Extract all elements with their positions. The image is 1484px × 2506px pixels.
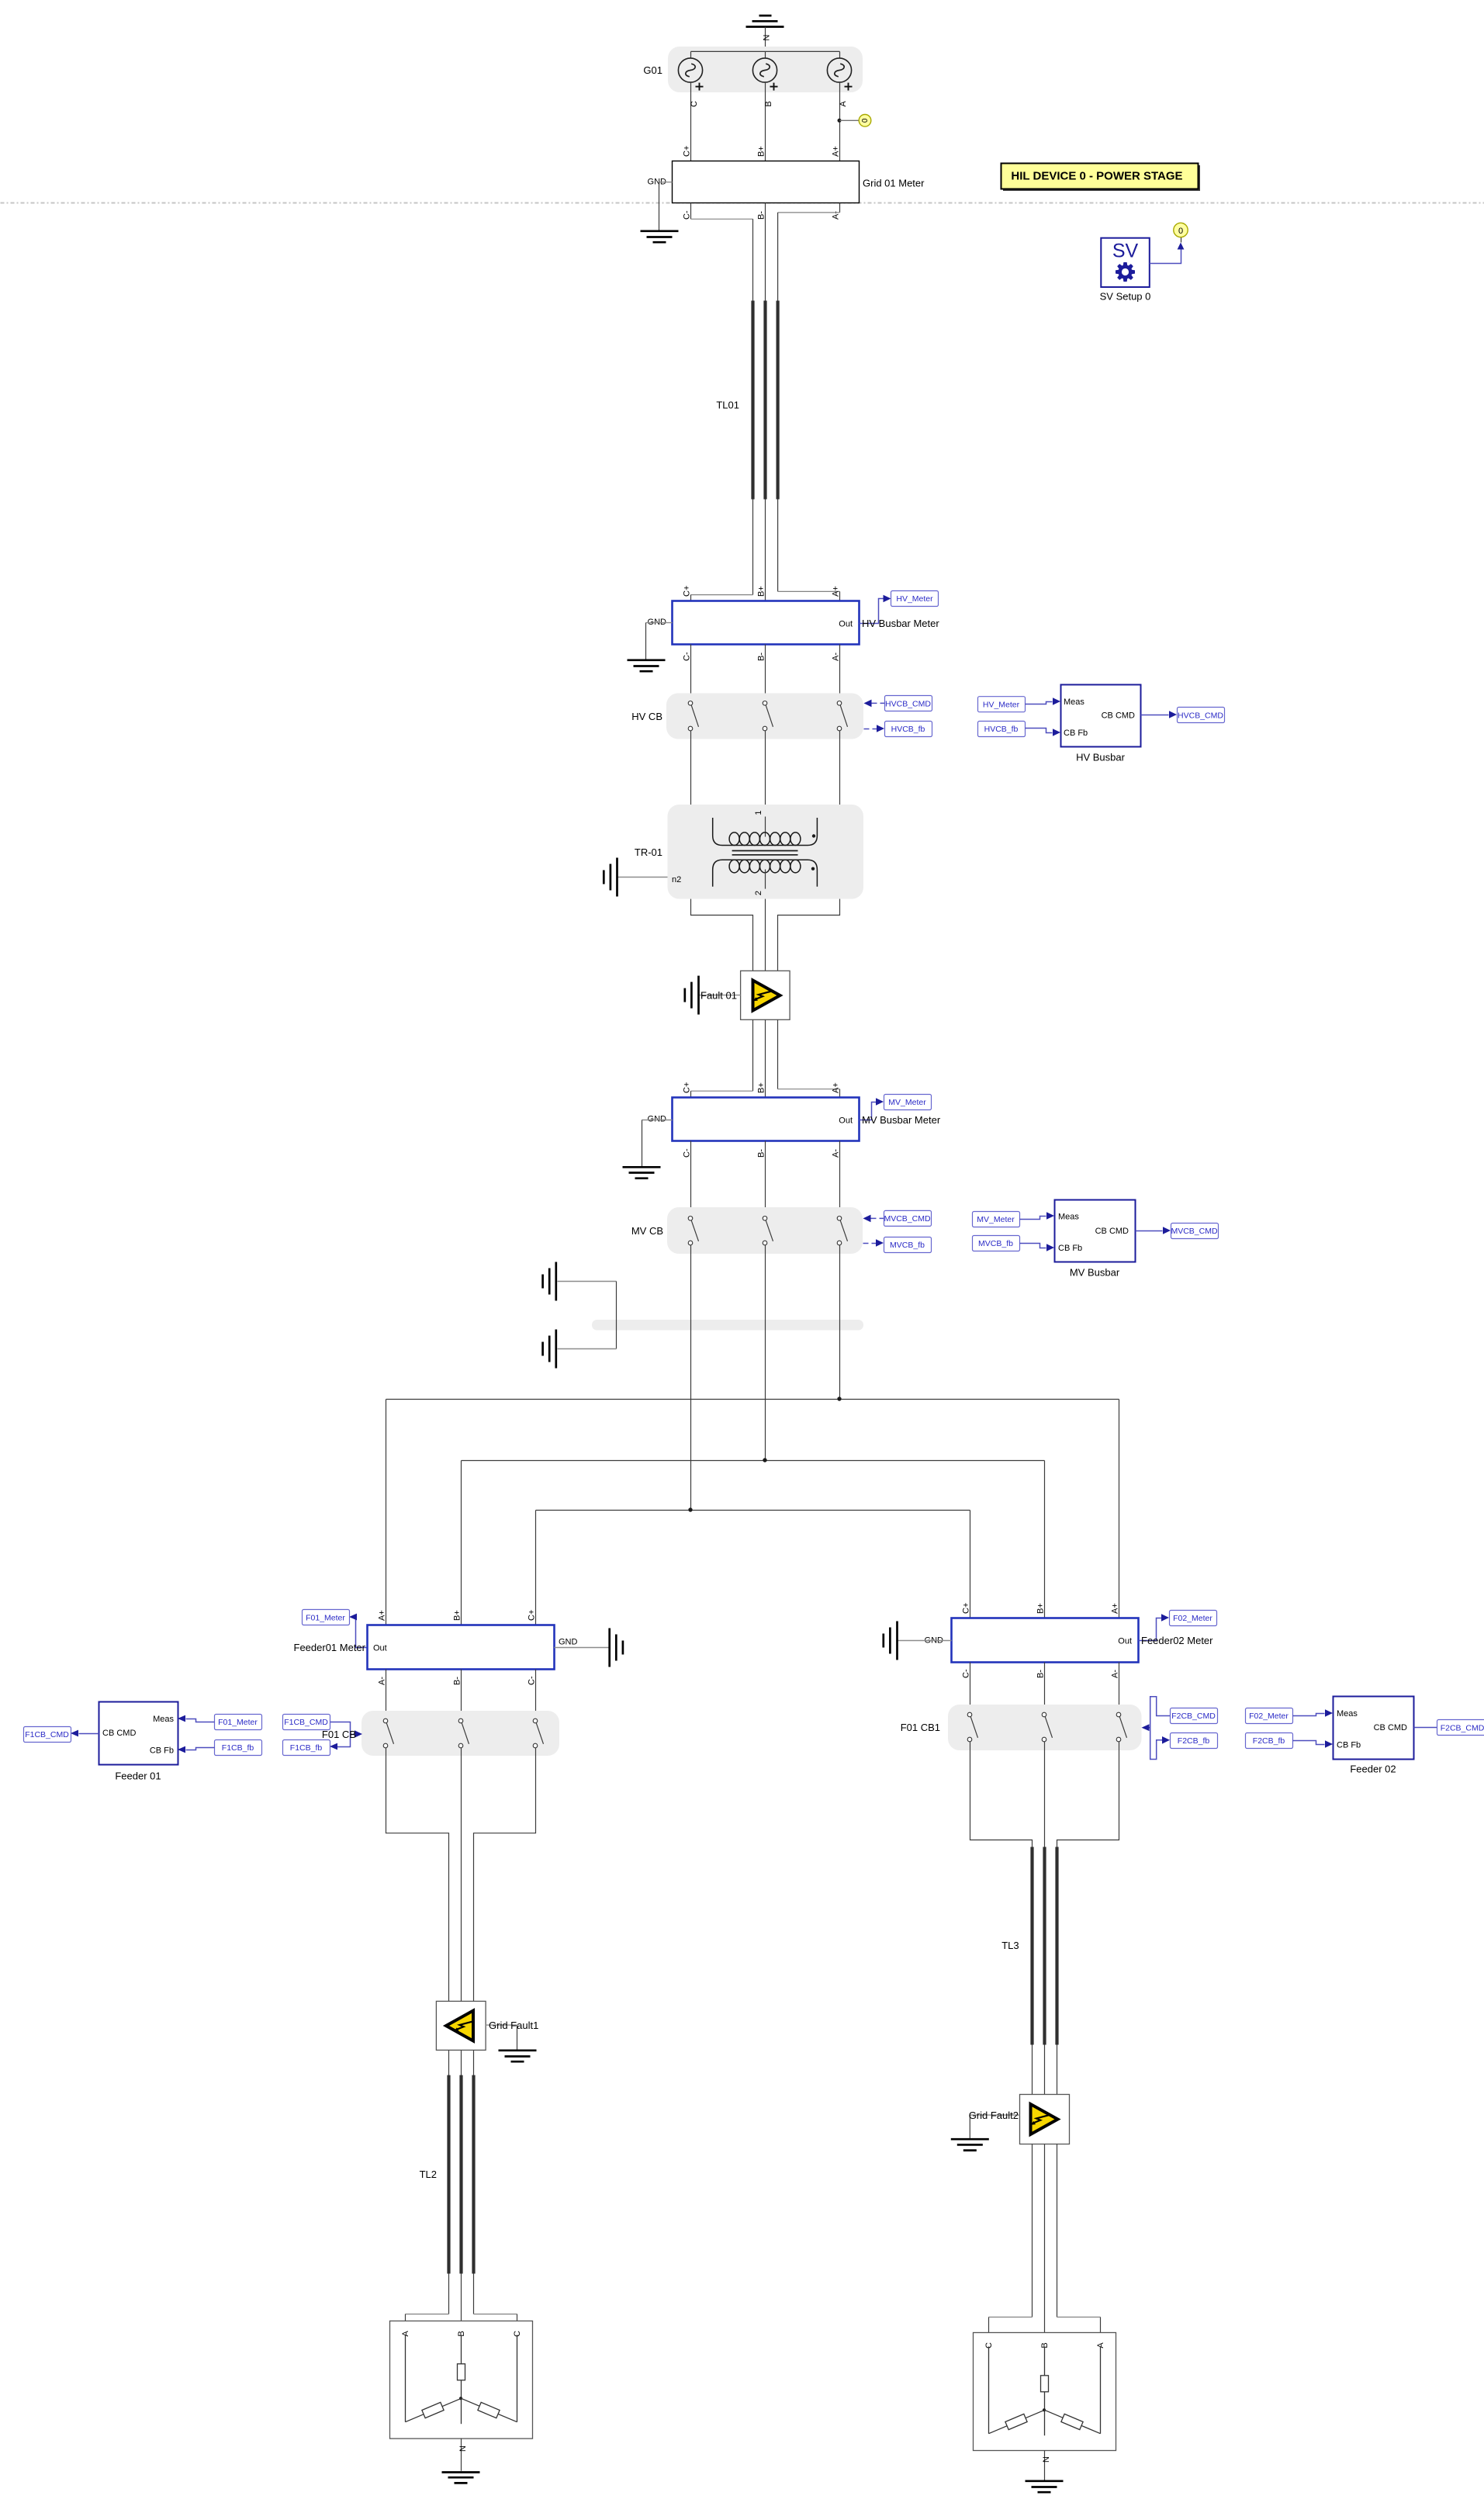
svg-text:N: N xyxy=(458,2445,468,2452)
svg-text:F01_Meter: F01_Meter xyxy=(306,1613,345,1622)
svg-text:CB CMD: CB CMD xyxy=(1095,1227,1129,1236)
svg-text:F1CB_CMD: F1CB_CMD xyxy=(25,1730,69,1739)
svg-text:MVCB_CMD: MVCB_CMD xyxy=(1171,1227,1218,1236)
svg-text:F02_Meter: F02_Meter xyxy=(1249,1712,1289,1721)
svg-text:Meas: Meas xyxy=(1058,1213,1079,1222)
svg-text:MVCB_fb: MVCB_fb xyxy=(890,1241,925,1250)
svg-text:C+: C+ xyxy=(528,1610,537,1621)
svg-text:C+: C+ xyxy=(683,586,692,597)
svg-text:MV CB: MV CB xyxy=(631,1225,663,1237)
svg-text:TL01: TL01 xyxy=(716,400,739,411)
svg-text:A+: A+ xyxy=(832,586,841,597)
svg-text:MV Busbar Meter: MV Busbar Meter xyxy=(862,1114,941,1126)
svg-text:Feeder02 Meter: Feeder02 Meter xyxy=(1141,1635,1213,1646)
svg-text:F1CB_fb: F1CB_fb xyxy=(290,1743,323,1753)
svg-text:C-: C- xyxy=(683,652,692,661)
svg-text:C-: C- xyxy=(683,1148,692,1158)
svg-text:CB Fb: CB Fb xyxy=(150,1746,174,1756)
svg-text:HVCB_CMD: HVCB_CMD xyxy=(1178,711,1223,720)
svg-text:Fault 01: Fault 01 xyxy=(700,990,737,1002)
svg-text:TR-01: TR-01 xyxy=(635,846,662,858)
svg-text:G01: G01 xyxy=(643,64,662,76)
svg-text:Out: Out xyxy=(1118,1637,1132,1646)
svg-text:HV Busbar Meter: HV Busbar Meter xyxy=(862,618,939,629)
svg-text:A+: A+ xyxy=(832,146,841,157)
svg-text:Meas: Meas xyxy=(1064,697,1084,707)
svg-text:F2CB_fb: F2CB_fb xyxy=(1253,1736,1285,1746)
svg-text:N: N xyxy=(1042,2456,1051,2463)
svg-text:HIL DEVICE 0 - POWER STAGE: HIL DEVICE 0 - POWER STAGE xyxy=(1011,170,1182,183)
svg-text:B-: B- xyxy=(1036,1670,1046,1678)
svg-text:C-: C- xyxy=(962,1669,971,1678)
svg-text:F02_Meter: F02_Meter xyxy=(1173,1614,1212,1623)
svg-text:HV_Meter: HV_Meter xyxy=(896,594,933,604)
svg-text:Out: Out xyxy=(373,1644,387,1653)
svg-text:Meas: Meas xyxy=(153,1715,174,1724)
svg-text:F01_Meter: F01_Meter xyxy=(218,1718,258,1727)
svg-text:MVCB_fb: MVCB_fb xyxy=(978,1239,1013,1248)
svg-text:C+: C+ xyxy=(683,146,692,157)
svg-text:A: A xyxy=(839,101,848,107)
svg-text:CB Fb: CB Fb xyxy=(1337,1741,1361,1750)
svg-text:Meas: Meas xyxy=(1337,1709,1358,1719)
svg-text:CB CMD: CB CMD xyxy=(1102,711,1135,721)
svg-text:HV CB: HV CB xyxy=(631,711,662,722)
svg-text:MVCB_CMD: MVCB_CMD xyxy=(884,1214,931,1224)
svg-text:C+: C+ xyxy=(962,1603,971,1614)
svg-text:2: 2 xyxy=(754,891,763,895)
svg-text:GND: GND xyxy=(648,1115,667,1124)
svg-text:HVCB_CMD: HVCB_CMD xyxy=(885,699,931,708)
svg-text:Feeder 01: Feeder 01 xyxy=(115,1770,161,1782)
svg-text:CB CMD: CB CMD xyxy=(1374,1723,1407,1732)
svg-text:Feeder 02: Feeder 02 xyxy=(1350,1764,1396,1775)
svg-text:C-: C- xyxy=(683,210,692,220)
svg-text:CB CMD: CB CMD xyxy=(102,1729,136,1738)
svg-text:F2CB_CMD: F2CB_CMD xyxy=(1171,1712,1216,1721)
svg-text:HVCB_fb: HVCB_fb xyxy=(984,725,1019,734)
svg-text:MV_Meter: MV_Meter xyxy=(888,1098,926,1107)
svg-text:F01 CB: F01 CB xyxy=(322,1729,356,1740)
svg-text:B-: B- xyxy=(757,652,766,661)
svg-text:1: 1 xyxy=(754,810,763,815)
svg-text:0: 0 xyxy=(1178,227,1183,236)
svg-text:CB Fb: CB Fb xyxy=(1064,729,1088,738)
svg-text:A+: A+ xyxy=(378,1610,387,1621)
svg-text:B+: B+ xyxy=(453,1610,462,1621)
svg-text:n2: n2 xyxy=(672,875,681,884)
svg-text:CB Fb: CB Fb xyxy=(1058,1244,1082,1253)
svg-text:C+: C+ xyxy=(683,1082,692,1093)
svg-text:Out: Out xyxy=(839,620,853,629)
svg-text:C-: C- xyxy=(528,1676,537,1685)
svg-text:SV: SV xyxy=(1112,241,1139,262)
svg-text:A-: A- xyxy=(1111,1670,1120,1678)
svg-text:F01 CB1: F01 CB1 xyxy=(901,1722,940,1733)
svg-text:TL2: TL2 xyxy=(420,2169,437,2180)
svg-text:A+: A+ xyxy=(1111,1603,1120,1614)
svg-text:HV_Meter: HV_Meter xyxy=(983,701,1020,710)
svg-text:HVCB_fb: HVCB_fb xyxy=(891,725,925,734)
svg-text:A-: A- xyxy=(832,652,841,661)
svg-text:Feeder01 Meter: Feeder01 Meter xyxy=(294,1642,366,1653)
svg-text:F2CB_fb: F2CB_fb xyxy=(1178,1736,1210,1746)
svg-text:MV_Meter: MV_Meter xyxy=(977,1215,1015,1224)
svg-text:A+: A+ xyxy=(832,1082,841,1093)
svg-text:B+: B+ xyxy=(1036,1603,1046,1614)
svg-text:C: C xyxy=(690,101,699,107)
svg-text:F1CB_fb: F1CB_fb xyxy=(222,1743,254,1753)
svg-text:MV Busbar: MV Busbar xyxy=(1070,1267,1120,1279)
svg-text:A-: A- xyxy=(832,1149,841,1158)
svg-text:0: 0 xyxy=(861,118,870,123)
svg-text:Grid Fault1: Grid Fault1 xyxy=(489,2020,538,2031)
svg-text:F1CB_CMD: F1CB_CMD xyxy=(284,1718,328,1727)
svg-text:B+: B+ xyxy=(757,1082,766,1093)
svg-text:N: N xyxy=(763,34,772,40)
svg-text:B-: B- xyxy=(757,211,766,220)
svg-text:Grid 01 Meter: Grid 01 Meter xyxy=(863,178,925,189)
svg-text:B-: B- xyxy=(757,1149,766,1158)
svg-text:SV Setup 0: SV Setup 0 xyxy=(1100,291,1151,303)
svg-text:F2CB_CMD: F2CB_CMD xyxy=(1441,1723,1484,1732)
svg-text:GND: GND xyxy=(559,1638,578,1647)
svg-text:B: B xyxy=(764,101,773,106)
svg-text:HV Busbar: HV Busbar xyxy=(1076,752,1126,763)
svg-text:A-: A- xyxy=(378,1677,387,1685)
svg-text:B+: B+ xyxy=(757,146,766,157)
svg-text:TL3: TL3 xyxy=(1001,1940,1019,1951)
svg-text:Out: Out xyxy=(839,1116,853,1126)
svg-text:B-: B- xyxy=(453,1677,462,1685)
svg-text:B+: B+ xyxy=(757,586,766,597)
svg-text:Grid Fault2: Grid Fault2 xyxy=(969,2110,1019,2121)
